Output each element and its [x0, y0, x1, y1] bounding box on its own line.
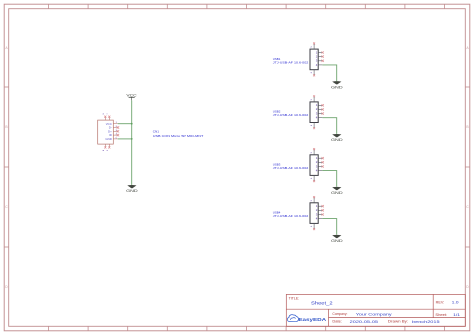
title block: [286, 294, 465, 326]
USB2 pin 3: [316, 112, 324, 116]
svg-text:GND: GND: [331, 138, 343, 142]
svg-text:VCC: VCC: [126, 93, 137, 97]
USB connector USB1 body: [310, 49, 318, 70]
ground flag GND (CN1): [126, 185, 138, 193]
svg-text:Your Company: Your Company: [356, 311, 392, 316]
USB4 pin 1: [316, 204, 324, 208]
junction at VCC tap: [131, 123, 133, 125]
CN1 pin 2 (D-): [109, 126, 119, 130]
wire USB4 pin4 to ground: [322, 219, 336, 235]
USB1 pin 6 (bottom shell): [311, 70, 315, 77]
USB1 pin 1: [316, 50, 324, 54]
USB3 pin 5 (top shell): [311, 148, 315, 155]
title block texts: [289, 296, 448, 323]
USB3 pin 4: [316, 169, 323, 173]
ground flag GND (USB1): [331, 81, 343, 89]
VCC power flag: [126, 93, 137, 100]
connector CN1 body: [98, 120, 114, 144]
wire CN1 pin1 to VCC bus: [118, 123, 132, 125]
svg-text:REV:: REV:: [436, 300, 445, 304]
svg-text:EasyEDA: EasyEDA: [298, 317, 326, 323]
ground flag GND (USB2): [331, 134, 343, 142]
ground flag GND (USB4): [331, 235, 343, 243]
svg-text:JTJ-USB-AF 10.6-002: JTJ-USB-AF 10.6-002: [273, 113, 309, 117]
svg-text:1/1: 1/1: [453, 312, 461, 317]
wire USB1 pin4 to ground: [322, 65, 336, 81]
svg-text:GND: GND: [331, 239, 343, 243]
svg-text:JTJ-USB-AF 10.6-002: JTJ-USB-AF 10.6-002: [273, 166, 309, 170]
svg-text:Drawn By:: Drawn By:: [388, 320, 408, 324]
CN1 pin 3 (D+): [108, 129, 119, 133]
USB1 pin 5 (top shell): [311, 42, 315, 49]
wire USB2 pin4 to ground: [322, 118, 336, 134]
CN1 shield pin 9 (bottom): [107, 144, 110, 151]
USB4 pin 3: [316, 212, 324, 216]
USB connector USB2 body: [310, 102, 318, 123]
svg-text:JTJ-USB-AF 10.6-002: JTJ-USB-AF 10.6-002: [273, 214, 309, 218]
USB4 pin 6 (bottom shell): [311, 223, 315, 230]
CN1 shield pin 6 (top): [103, 112, 106, 120]
USB1 pin 4: [316, 63, 323, 67]
svg-text:USB CON Micro 5P MID-MNT: USB CON Micro 5P MID-MNT: [153, 134, 204, 138]
svg-text:GND: GND: [331, 191, 343, 195]
USB4 pin 4: [316, 217, 323, 221]
CN1 pin 1 (VCC): [106, 122, 118, 126]
USB connector USB4 body: [310, 203, 318, 224]
USB4 pin 2: [316, 208, 324, 212]
svg-text:1.0: 1.0: [452, 299, 460, 304]
svg-text:Sheet:: Sheet:: [435, 313, 447, 317]
junction at GND tap: [131, 138, 133, 140]
wire USB3 pin4 to ground: [322, 171, 336, 187]
USB1 pin 2: [316, 55, 324, 59]
svg-text:GND: GND: [105, 137, 111, 141]
CN1 pin 4 (ID): [109, 133, 119, 137]
USB4 pin 5 (top shell): [311, 196, 315, 203]
ground flag GND (USB3): [331, 187, 343, 195]
svg-text:2020-05-05: 2020-05-05: [350, 319, 379, 324]
USB2 pin 4: [316, 116, 323, 120]
svg-text:TITLE:: TITLE:: [289, 296, 300, 300]
USB3 pin 1: [316, 156, 324, 160]
USB connector USB3 body: [310, 155, 318, 176]
USB3 pin 6 (bottom shell): [311, 175, 315, 182]
CN1 pin 5 (GND): [105, 137, 117, 141]
CN1 shield pin 8 (bottom): [103, 144, 106, 151]
svg-text:GND: GND: [126, 189, 138, 193]
svg-text:JTJ-USB-AF 10.6-002: JTJ-USB-AF 10.6-002: [273, 60, 309, 64]
EasyEDA logo: [287, 315, 298, 322]
USB2 pin 2: [316, 107, 324, 111]
wire CN1 pin5 to GND bus: [118, 138, 132, 140]
svg-text:Sheet_2: Sheet_2: [311, 301, 333, 307]
svg-text:Date:: Date:: [332, 320, 342, 324]
USB3 pin 2: [316, 160, 324, 164]
USB3 pin 3: [316, 164, 324, 168]
USB1 pin 3: [316, 59, 324, 63]
svg-text:bench2015: bench2015: [412, 319, 441, 324]
svg-text:GND: GND: [331, 85, 343, 89]
USB2 pin 1: [316, 103, 324, 107]
svg-text:Company:: Company:: [332, 312, 347, 316]
USB2 pin 6 (bottom shell): [311, 123, 315, 130]
USB2 pin 5 (top shell): [311, 95, 315, 102]
CN1 shield pin 7 (top): [107, 112, 110, 120]
wire VCC vertical bus: [131, 100, 133, 184]
